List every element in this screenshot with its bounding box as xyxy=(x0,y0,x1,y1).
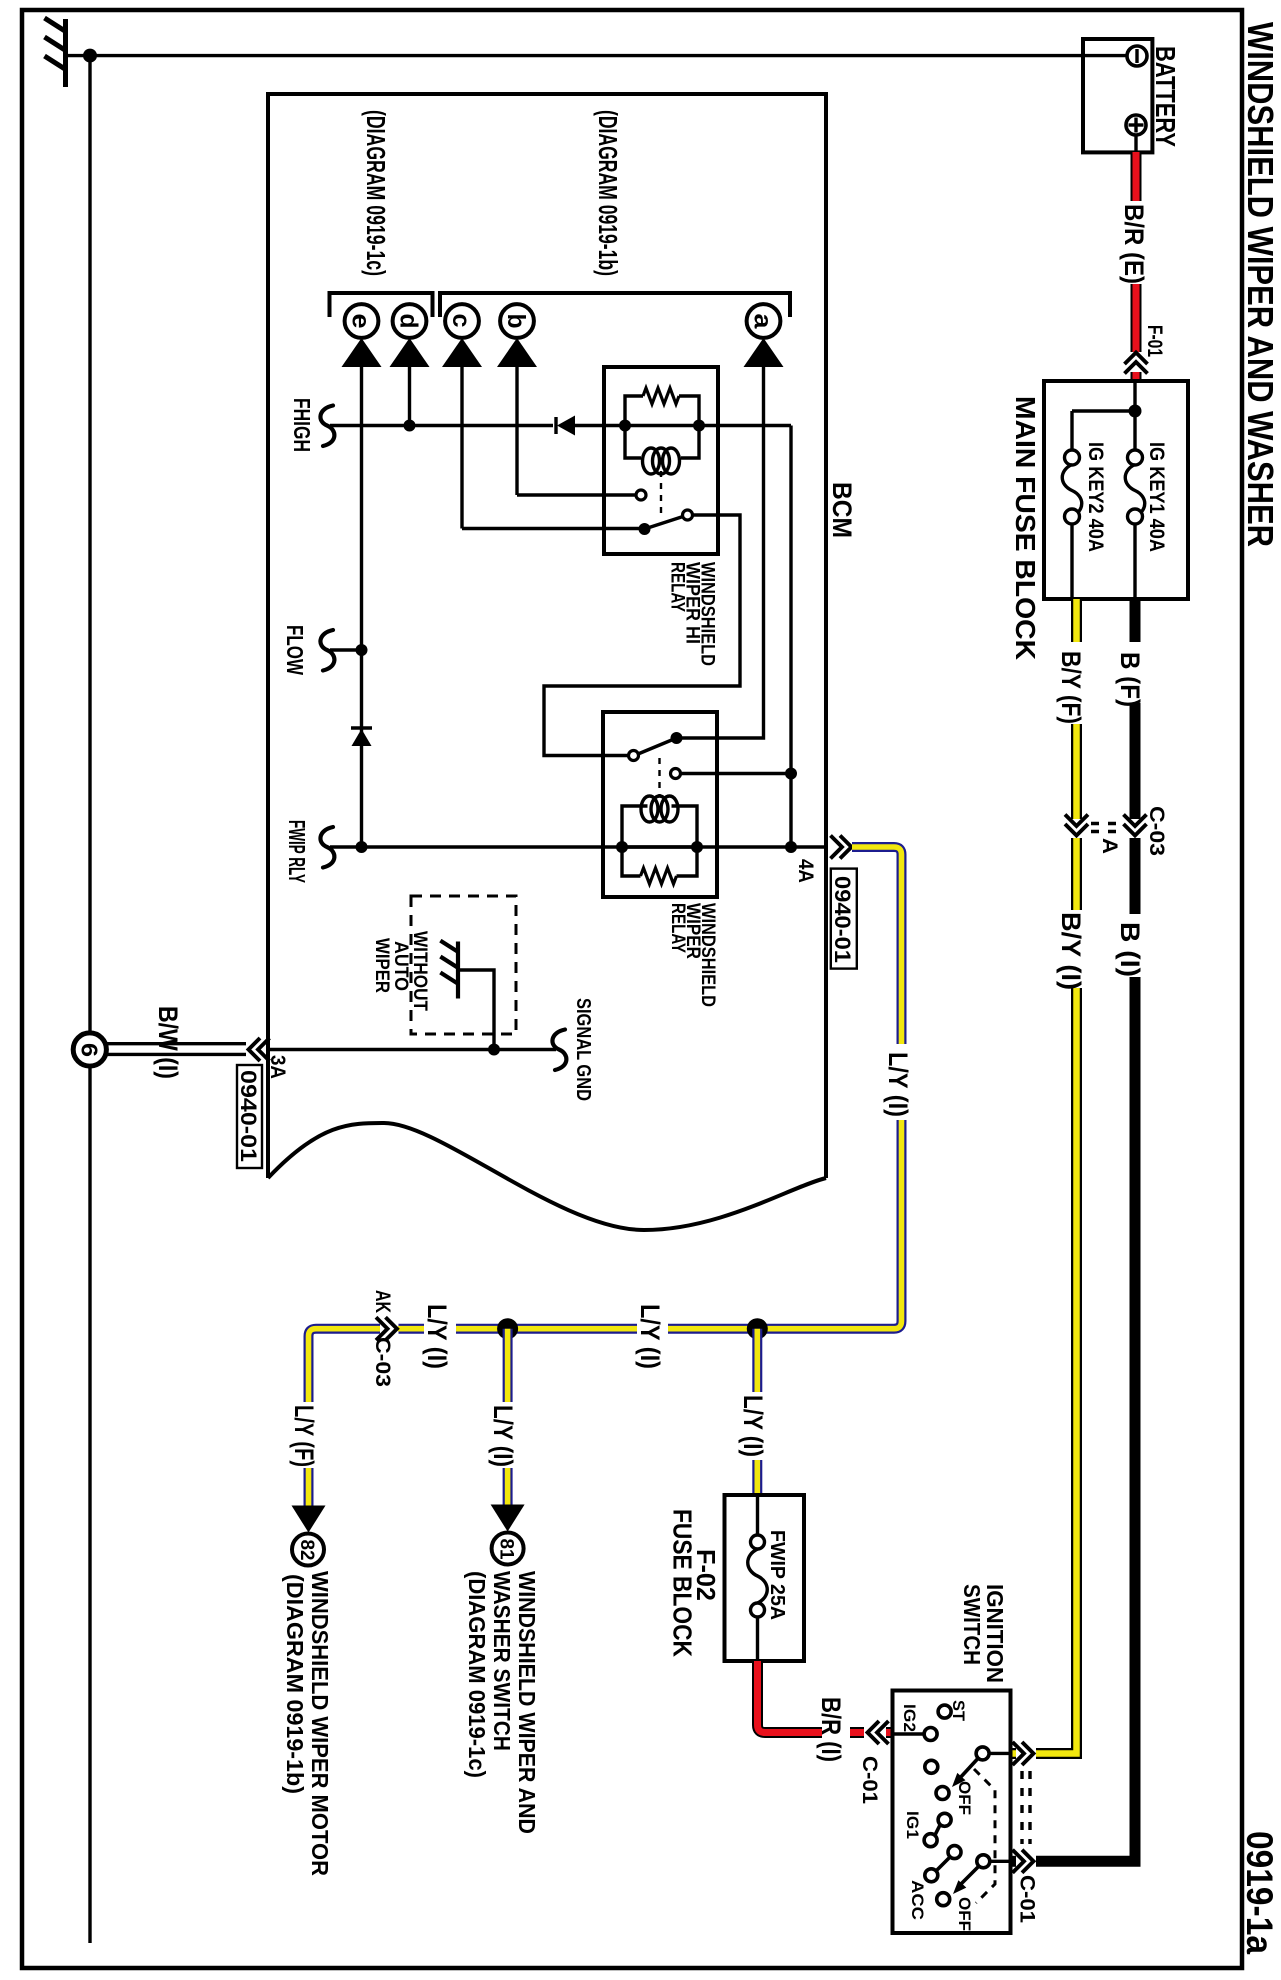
svg-text:L/Y (F): L/Y (F) xyxy=(289,1405,319,1467)
wire B/Y (F) black/yellow xyxy=(1071,599,1082,819)
svg-text:B/W (I): B/W (I) xyxy=(153,1006,183,1079)
wire B/R (I) red xyxy=(758,1661,893,1733)
svg-text:ST: ST xyxy=(949,1700,968,1722)
svg-text:0940-01: 0940-01 xyxy=(236,1070,261,1162)
HI relay inner box with resistor and coil xyxy=(625,396,699,458)
wire B/Y (I) xyxy=(1011,838,1077,1754)
HI relay switch xyxy=(515,366,518,495)
wire FWIP RLY xyxy=(330,845,826,848)
internal ground (without auto wiper) xyxy=(440,941,458,999)
terminal ST xyxy=(938,1705,951,1718)
terminal ACC pair xyxy=(948,1846,961,1859)
connector b xyxy=(500,304,534,338)
svg-text:FLOW: FLOW xyxy=(282,625,308,675)
wire L/Y (I) drop to washer switch xyxy=(503,1329,513,1507)
node e FLOW junction xyxy=(356,644,368,656)
selector arm bottom xyxy=(960,1867,979,1886)
svg-text:IG2: IG2 xyxy=(900,1704,919,1732)
svg-text:L/Y (I): L/Y (I) xyxy=(422,1304,452,1369)
terminal IG2 xyxy=(924,1728,937,1741)
diode on e line xyxy=(351,726,372,729)
windshield wiper HI relay box xyxy=(604,367,718,554)
svg-text:FHIGH: FHIGH xyxy=(289,398,315,452)
ignition switch box xyxy=(893,1691,1011,1934)
wire through HI relay xyxy=(625,424,699,427)
svg-text:IG KEY1 40A: IG KEY1 40A xyxy=(1145,442,1168,552)
wire ground stub xyxy=(66,54,89,57)
fuse IG KEY1 40A xyxy=(1128,450,1143,465)
svg-text:a: a xyxy=(749,314,777,330)
svg-text:WINDSHIELD WIPER AND WASHER: WINDSHIELD WIPER AND WASHER xyxy=(1240,22,1281,547)
wire L/Y (I) drop to fuse block xyxy=(752,1329,762,1495)
connector C-01 red xyxy=(868,1721,889,1744)
dashed box WITHOUT AUTO WIPER xyxy=(411,896,516,1034)
svg-text:B/Y (I): B/Y (I) xyxy=(1056,912,1086,990)
svg-text:(DIAGRAM 0919-1c): (DIAGRAM 0919-1c) xyxy=(361,110,391,276)
terminal mid xyxy=(925,1760,938,1773)
svg-text:0940-01: 0940-01 xyxy=(830,876,855,963)
svg-text:WASHER SWITCH: WASHER SWITCH xyxy=(489,1571,515,1751)
svg-text:RELAY: RELAY xyxy=(667,562,688,612)
svg-text:IG1: IG1 xyxy=(903,1811,922,1839)
battery xyxy=(1083,39,1152,152)
svg-text:WINDSHIELD WIPER MOTOR: WINDSHIELD WIPER MOTOR xyxy=(307,1571,333,1876)
svg-text:C-03: C-03 xyxy=(371,1337,394,1387)
battery plus terminal xyxy=(1126,115,1146,135)
svg-text:82: 82 xyxy=(296,1540,317,1561)
terminal selector bottom xyxy=(977,1855,990,1868)
connector d xyxy=(393,304,427,338)
wire B (F) black xyxy=(1130,599,1141,642)
wire SIGNAL GND xyxy=(268,1048,556,1051)
fuse IG KEY2 40A xyxy=(1065,450,1080,465)
fuse FWIP 25A xyxy=(756,1495,759,1535)
svg-text:FUSE BLOCK: FUSE BLOCK xyxy=(668,1509,698,1657)
ground splice circle 6 xyxy=(73,1033,106,1066)
svg-text:B/R (E): B/R (E) xyxy=(1119,204,1149,284)
svg-text:4A: 4A xyxy=(794,859,817,883)
selector arm top xyxy=(959,1758,978,1779)
bracket group e d xyxy=(330,293,433,317)
connector AK C-03 xyxy=(376,1317,397,1340)
connector C-01 black xyxy=(1013,1850,1034,1873)
node ground junction xyxy=(83,49,97,63)
svg-text:IG KEY2 40A: IG KEY2 40A xyxy=(1084,442,1107,552)
wire L/Y from BCM 4A xyxy=(852,847,902,1044)
wire d drop xyxy=(408,366,411,426)
fuse block F-02 xyxy=(725,1495,805,1661)
windshield wiper relay box xyxy=(603,712,717,897)
svg-text:b: b xyxy=(502,314,530,329)
svg-text:B (F): B (F) xyxy=(1115,652,1145,707)
svg-text:C-03: C-03 xyxy=(1145,806,1168,856)
svg-text:FWIP 25A: FWIP 25A xyxy=(766,1530,788,1620)
connector 82 xyxy=(292,1534,324,1566)
connector 4A chevron xyxy=(831,836,852,859)
wiper relay inner box with coil and resistor xyxy=(622,806,697,876)
svg-text:L/Y (I): L/Y (I) xyxy=(883,1052,913,1117)
wire battery plus stub xyxy=(1134,135,1137,152)
battery minus terminal xyxy=(1127,46,1147,66)
connector F-01 xyxy=(1125,353,1148,374)
svg-text:81: 81 xyxy=(496,1539,517,1560)
svg-text:e: e xyxy=(347,314,375,329)
svg-text:MAIN FUSE BLOCK: MAIN FUSE BLOCK xyxy=(1010,396,1041,660)
ground (top left chassis ground) xyxy=(45,18,67,87)
BCM box with wavy bottom xyxy=(268,94,826,1178)
wire ground bus to battery xyxy=(90,54,1128,57)
svg-text:0919-1a: 0919-1a xyxy=(1239,1831,1280,1954)
svg-text:B/R (I): B/R (I) xyxy=(816,1697,846,1762)
svg-text:6: 6 xyxy=(77,1043,103,1057)
main fuse block xyxy=(1044,381,1188,599)
connector 81 xyxy=(492,1533,524,1565)
svg-text:ACC: ACC xyxy=(908,1880,927,1920)
svg-text:B (I): B (I) xyxy=(1115,922,1145,977)
HI relay dashed link xyxy=(660,471,662,514)
connector C-03 pin A yellow xyxy=(1065,815,1088,836)
svg-text:SWITCH: SWITCH xyxy=(959,1584,985,1665)
wire FLOW xyxy=(330,648,362,651)
wire B (I) xyxy=(1130,838,1141,914)
label 0940-01 right xyxy=(831,869,857,969)
svg-text:AUTO: AUTO xyxy=(390,941,411,991)
connector e xyxy=(345,304,379,338)
svg-text:FWIP RLY: FWIP RLY xyxy=(284,820,310,883)
terminal selector top xyxy=(976,1747,989,1760)
bracket group c b a xyxy=(440,293,790,317)
wire IG2 stub xyxy=(893,1732,925,1735)
svg-text:WIPER: WIPER xyxy=(371,938,392,993)
connector a xyxy=(747,304,781,338)
connector 3A chevron xyxy=(249,1038,270,1061)
connector c xyxy=(445,304,479,338)
wiper relay switch xyxy=(629,751,639,761)
wiper relay dashed link xyxy=(658,758,660,797)
svg-text:c: c xyxy=(447,314,475,328)
wire HI relay common xyxy=(544,515,740,756)
svg-text:L/Y (I): L/Y (I) xyxy=(635,1304,665,1369)
svg-text:(DIAGRAM 0919-1c): (DIAGRAM 0919-1c) xyxy=(464,1571,490,1778)
svg-text:L/Y (I): L/Y (I) xyxy=(488,1405,518,1467)
wire right branch xyxy=(789,426,792,848)
svg-text:BCM: BCM xyxy=(827,482,857,538)
svg-text:A: A xyxy=(1098,838,1121,854)
svg-text:OFF: OFF xyxy=(955,1897,974,1931)
svg-text:B/Y (F): B/Y (F) xyxy=(1056,651,1086,724)
mechanical link dashed xyxy=(974,1769,995,1903)
svg-text:RELAY: RELAY xyxy=(667,903,688,953)
connector C-01 yellow xyxy=(1013,1742,1034,1765)
svg-text:WITHOUT: WITHOUT xyxy=(409,931,430,1011)
wire ground bus left vertical xyxy=(88,56,91,1943)
svg-text:(DIAGRAM 0919-1b): (DIAGRAM 0919-1b) xyxy=(282,1574,308,1794)
svg-text:SIGNAL GND: SIGNAL GND xyxy=(572,998,594,1101)
wire B/R (E) red battery feed xyxy=(1131,152,1142,381)
svg-text:C-01: C-01 xyxy=(858,1756,881,1804)
label 0940-01 left xyxy=(237,1065,262,1168)
connector C-03 dashed tie xyxy=(1091,822,1124,825)
node L/Y junction 1 xyxy=(497,1318,518,1339)
wire FWIP RLY through relay xyxy=(622,845,697,848)
terminal OFF top xyxy=(936,1787,949,1800)
wire B/W twisted pair xyxy=(106,1042,246,1045)
svg-text:AK: AK xyxy=(371,1290,394,1313)
wire e drop xyxy=(360,366,363,847)
connector C-01 dashed tie xyxy=(1020,1771,1023,1844)
svg-text:WINDSHIELD WIPER AND: WINDSHIELD WIPER AND xyxy=(514,1571,540,1834)
svg-text:d: d xyxy=(395,314,423,329)
node L/Y junction 2 xyxy=(747,1318,768,1339)
svg-text:OFF: OFF xyxy=(955,1781,974,1815)
wire FHIGH xyxy=(330,424,553,427)
terminal OFF bottom xyxy=(937,1893,950,1906)
svg-text:(DIAGRAM 0919-1b): (DIAGRAM 0919-1b) xyxy=(593,110,623,276)
node fuse feed junction xyxy=(1133,381,1136,450)
wire to internal ground xyxy=(458,970,494,1050)
svg-text:F-01: F-01 xyxy=(1143,325,1166,357)
svg-text:BATTERY: BATTERY xyxy=(1150,46,1181,147)
diode FHIGH branch xyxy=(554,417,557,434)
connector C-03 black xyxy=(1124,815,1147,836)
terminal IG1 pair xyxy=(938,1813,951,1826)
svg-text:L/Y (I): L/Y (I) xyxy=(738,1395,768,1457)
svg-text:C-01: C-01 xyxy=(1016,1875,1039,1923)
node d junction xyxy=(404,420,416,432)
